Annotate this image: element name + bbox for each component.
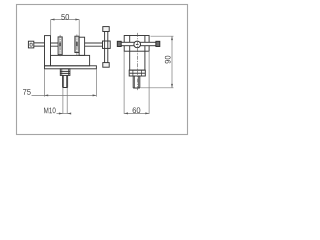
50 arrows — [51, 19, 55, 21]
top block — [124, 36, 149, 52]
stem left view — [63, 75, 68, 87]
dim 60 line — [124, 112, 149, 114]
block C2 — [79, 37, 85, 55]
upper slab — [51, 55, 90, 65]
M10 ext lines — [63, 88, 67, 114]
plate B inner lines — [59, 37, 61, 54]
centerline plate B — [59, 35, 61, 56]
dim text 75 — [23, 89, 31, 95]
60 arrows — [124, 112, 128, 114]
dim 60 ext lines — [124, 52, 149, 114]
dim text 90 — [165, 56, 171, 64]
screw axis dash in plate B — [59, 43, 61, 47]
90 arrows — [171, 36, 173, 40]
thread label M10 — [44, 108, 56, 114]
M10 dim line — [57, 113, 71, 115]
dim text 50 — [61, 14, 69, 20]
plate inner lines — [59, 37, 78, 54]
75 arrows — [44, 94, 48, 96]
base plate — [45, 66, 97, 69]
screw segment 1 — [34, 43, 45, 46]
M10 arrows (outside pointing in) — [59, 113, 63, 115]
boss right view — [129, 70, 145, 76]
inner verticals — [130, 36, 145, 52]
screw circle center dash — [136, 43, 139, 45]
dim 50 ext lines — [51, 20, 79, 37]
dim 90 ext lines — [141, 36, 174, 88]
screw segment 3 — [85, 43, 103, 46]
screw segment 2 — [51, 43, 59, 46]
arrowheads — [44, 19, 173, 115]
ball left — [117, 41, 121, 46]
plate C1 — [75, 36, 79, 52]
centerline plate C1 — [76, 35, 78, 56]
stem right view — [133, 76, 140, 88]
dim 50 line — [51, 19, 79, 21]
pad inner — [30, 43, 32, 46]
boss left view — [60, 69, 70, 76]
plate B — [58, 37, 62, 55]
centerlines left view — [60, 35, 77, 57]
handle bar — [105, 32, 108, 63]
centerline right view — [136, 33, 138, 90]
plate C1 inner lines — [76, 37, 78, 52]
dim 75 ext lines — [44, 69, 96, 96]
handle ball bottom — [103, 63, 109, 68]
dim 75 line — [32, 94, 97, 96]
tommy bar (white fill covers block behind) — [121, 42, 156, 45]
dim text 60 — [133, 107, 141, 113]
hub — [103, 41, 111, 48]
pad outer — [28, 41, 33, 48]
screw circle — [134, 41, 141, 48]
dark dashes on centerlines — [60, 42, 77, 47]
column — [130, 51, 145, 70]
handle ball top — [103, 27, 109, 32]
screw axis dash in plate C1 — [76, 42, 78, 47]
block A — [45, 36, 51, 66]
dim 90 line — [171, 36, 173, 87]
ball right — [156, 41, 160, 46]
